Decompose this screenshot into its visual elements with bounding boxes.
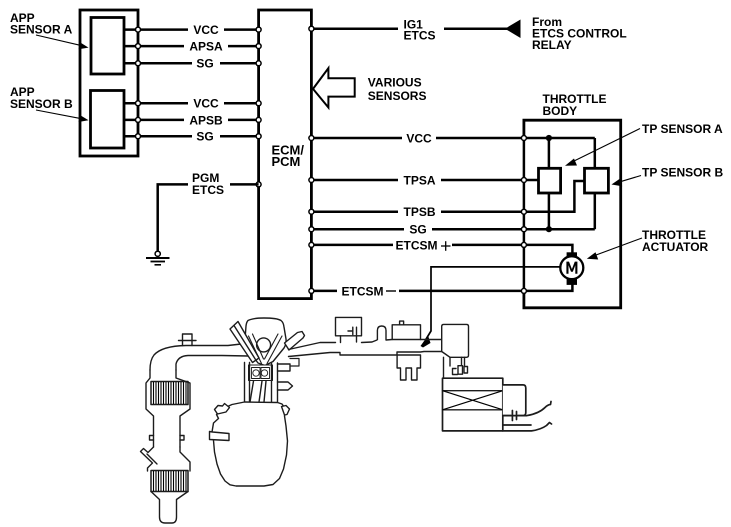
wire SG (APP A) <box>124 62 259 65</box>
TP sensor B box <box>585 168 609 193</box>
svg-text:RELAY: RELAY <box>532 38 572 52</box>
small tab below pipe right of engine <box>290 359 299 367</box>
intake pipe left horizontal <box>150 343 250 370</box>
wire SG (throttle body) <box>311 228 594 231</box>
label VCC wire A <box>188 23 224 37</box>
engine block left nub 1 <box>215 404 230 415</box>
svg-text:ETCS: ETCS <box>404 29 436 43</box>
label ETCSM+ <box>393 238 452 252</box>
svg-text:TPSB: TPSB <box>403 205 435 219</box>
exhaust pipe middle tabs <box>150 436 185 441</box>
svg-text:SG: SG <box>409 223 426 237</box>
engine block right nub <box>282 406 290 416</box>
wire SG (APP B) <box>124 135 259 138</box>
APP sensor assembly outer box <box>80 10 138 156</box>
label APSA <box>184 40 228 54</box>
label TPSA <box>398 174 441 188</box>
stub fitting on intake pipe <box>179 334 197 346</box>
wire ETCSM- <box>311 284 572 291</box>
label APP SENSOR A <box>10 11 73 37</box>
vertical box right <box>442 324 469 357</box>
wire IG1 ETCS <box>311 27 507 30</box>
engine right bracket <box>278 364 293 390</box>
label THROTTLE ACTUATOR <box>642 228 709 254</box>
triangle from ETCS control relay <box>505 20 521 39</box>
intake runner right angled bar <box>285 332 305 351</box>
svg-text:VCC: VCC <box>193 23 219 37</box>
catalytic converter 1 <box>151 382 188 405</box>
svg-text:SENSORS: SENSORS <box>368 89 427 103</box>
svg-text:TPSA: TPSA <box>403 174 435 188</box>
label APSB <box>184 113 228 127</box>
small box 2 on pipe <box>392 321 420 339</box>
wire TPSB <box>311 181 584 212</box>
label APP SENSOR B <box>10 85 73 111</box>
svg-text:BODY: BODY <box>543 104 578 118</box>
wire VCC inside throttle body to TP sensors <box>549 138 595 168</box>
terminal circles APP assembly right edge <box>136 27 141 139</box>
svg-text:SG: SG <box>196 57 213 71</box>
arrow APP sensor A <box>36 35 89 49</box>
intake pipe right section <box>289 340 442 357</box>
ground <box>146 251 170 265</box>
svg-text:ETCSM: ETCSM <box>396 238 438 252</box>
svg-text:ETCSM: ETCSM <box>342 284 384 298</box>
label TP SENSOR B <box>642 166 723 180</box>
leader line motor to engine drawing <box>426 267 561 340</box>
svg-text:ACTUATOR: ACTUATOR <box>642 240 709 254</box>
injector bracket below pipe <box>397 355 420 380</box>
svg-text:TP SENSOR A: TP SENSOR A <box>642 122 723 136</box>
throttle body box <box>524 120 621 308</box>
canister bottom pipe hook <box>503 423 552 431</box>
label THROTTLE BODY <box>543 92 607 118</box>
svg-text:ETCS: ETCS <box>192 183 224 197</box>
throttle actuator motor M <box>560 252 583 285</box>
terminal circles ECM right edge <box>309 136 314 294</box>
label ETCSM- <box>337 284 399 298</box>
wire VCC (APP A to ECM) <box>124 28 259 31</box>
camshaft circle <box>257 338 271 352</box>
arrow TP sensor B <box>612 176 642 187</box>
ECM/PCM box <box>259 10 312 299</box>
label IG1 ETCS <box>398 18 444 43</box>
label VCC right wire <box>402 132 436 146</box>
wire APSB <box>124 119 259 122</box>
catalytic converter 2 <box>151 471 188 492</box>
label SG right wire <box>404 223 432 237</box>
svg-text:VARIOUS: VARIOUS <box>368 76 422 90</box>
label PGM ETCS <box>188 171 230 197</box>
junction dot VCC rail <box>546 135 552 141</box>
capacitor mark and upper pipe hook <box>503 402 551 421</box>
wire SG inside throttle body <box>549 193 595 229</box>
exhaust downpipe upper <box>146 370 190 447</box>
engine block left bar <box>210 432 230 441</box>
arrow throttle actuator <box>587 238 642 260</box>
label SG wire A <box>192 57 220 71</box>
various sensors hollow arrow <box>313 68 355 107</box>
intake runner left angled bar <box>230 322 259 363</box>
terminal circles throttle body left edge <box>521 136 526 294</box>
label VCC wire B <box>188 97 224 111</box>
wire PGM ETCS to ground <box>158 184 259 251</box>
TP sensor A box <box>539 168 561 193</box>
svg-text:PCM: PCM <box>272 154 301 169</box>
label TPSB <box>398 205 441 219</box>
canister box with X <box>443 378 503 431</box>
svg-text:APSA: APSA <box>189 40 223 54</box>
svg-text:SENSOR B: SENSOR B <box>10 97 73 111</box>
label TP SENSOR A <box>642 122 723 136</box>
svg-text:SG: SG <box>196 130 213 144</box>
angled inlet stub <box>141 447 191 471</box>
V valve lines <box>249 334 283 364</box>
label SG wire B <box>192 130 220 144</box>
exhaust tail pipe <box>151 492 188 524</box>
wire VCC (ECM to throttle body) <box>311 137 594 140</box>
label From ETCS CONTROL RELAY <box>532 15 627 52</box>
wire APSA <box>124 45 259 48</box>
svg-text:VCC: VCC <box>406 132 432 146</box>
APP sensor A box <box>91 18 124 75</box>
small box 1 on pipe <box>336 317 362 342</box>
junction dot SG rail <box>546 226 552 232</box>
label VARIOUS SENSORS <box>368 76 427 103</box>
downcomer to canister <box>444 357 465 378</box>
wire VCC (APP B to ECM) <box>124 102 259 105</box>
cylinder walls <box>245 363 278 403</box>
svg-text:VCC: VCC <box>193 97 219 111</box>
arrow TP sensor A <box>565 129 640 166</box>
canister sub box <box>503 385 526 416</box>
label ECM/PCM <box>272 143 305 170</box>
svg-text:SENSOR A: SENSOR A <box>10 23 73 37</box>
small bracket on canister top <box>453 366 468 375</box>
arrowhead leader line bottom <box>421 336 431 348</box>
terminal circles ECM left edge <box>256 27 261 187</box>
engine block <box>212 402 288 486</box>
svg-text:TP SENSOR B: TP SENSOR B <box>642 166 723 180</box>
wire TPSA <box>311 179 538 182</box>
svg-text:APSB: APSB <box>189 113 223 127</box>
APP sensor B box <box>91 91 125 149</box>
small cylinder on pipe <box>377 326 386 340</box>
intake manifold cluster below head <box>249 365 273 381</box>
wire ETCSM+ <box>311 245 572 254</box>
terminal circle ECM right IG1 <box>309 26 314 31</box>
engine cylinder head dome <box>245 318 286 366</box>
arrow APP sensor B <box>36 110 89 122</box>
